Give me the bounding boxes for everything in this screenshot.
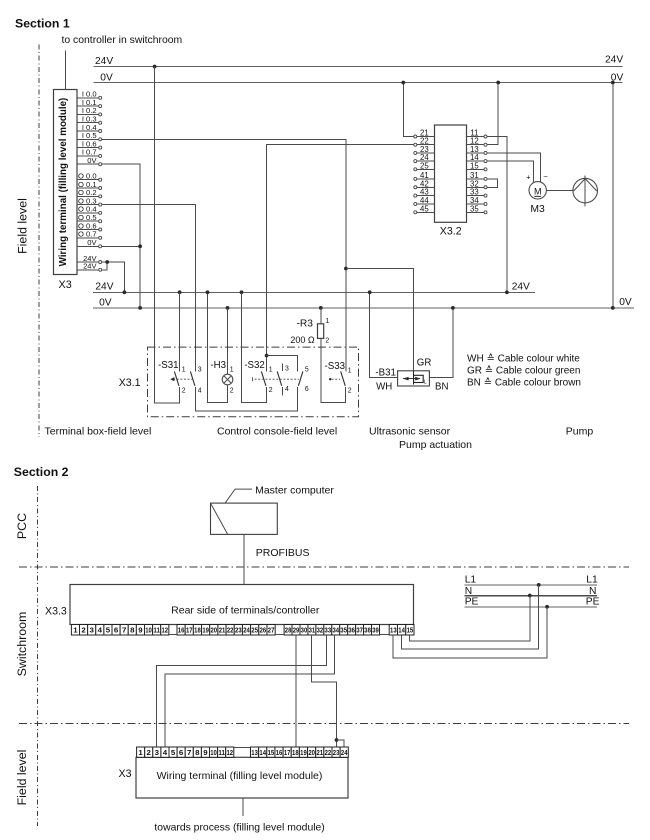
svg-text:20: 20 — [308, 748, 315, 757]
svg-text:22: 22 — [227, 626, 234, 635]
svg-text:15: 15 — [407, 626, 414, 635]
svg-text:1: 1 — [269, 366, 273, 373]
svg-text:16: 16 — [178, 626, 185, 635]
svg-text:25: 25 — [420, 161, 429, 170]
svg-text:0V: 0V — [99, 297, 112, 308]
svg-text:10: 10 — [145, 626, 152, 635]
svg-text:15: 15 — [268, 748, 275, 757]
svg-text:1: 1 — [348, 368, 352, 375]
svg-text:34: 34 — [332, 626, 339, 635]
svg-text:N: N — [465, 586, 472, 597]
svg-text:X3: X3 — [119, 768, 132, 780]
svg-text:200 Ω: 200 Ω — [290, 335, 315, 345]
svg-text:2: 2 — [325, 337, 329, 344]
svg-text:28: 28 — [285, 626, 292, 635]
svg-text:24V: 24V — [95, 282, 113, 293]
svg-text:+: + — [526, 173, 531, 182]
svg-text:Master computer: Master computer — [255, 485, 334, 497]
svg-text:3: 3 — [155, 748, 159, 757]
svg-text:10: 10 — [210, 748, 217, 757]
svg-text:14: 14 — [259, 748, 266, 757]
svg-text:M: M — [534, 186, 542, 196]
svg-text:36: 36 — [348, 626, 355, 635]
svg-text:29: 29 — [293, 626, 300, 635]
svg-text:-S33: -S33 — [325, 361, 345, 372]
svg-text:12: 12 — [161, 626, 168, 635]
svg-text:PE: PE — [465, 597, 479, 608]
svg-text:3: 3 — [285, 366, 289, 373]
svg-text:13: 13 — [390, 626, 397, 635]
svg-text:21: 21 — [316, 748, 323, 757]
svg-text:45: 45 — [420, 204, 429, 213]
svg-text:8: 8 — [195, 748, 199, 757]
svg-text:2: 2 — [147, 748, 151, 757]
svg-text:Section 1: Section 1 — [15, 17, 70, 31]
svg-text:11: 11 — [218, 748, 225, 757]
svg-text:31: 31 — [309, 626, 316, 635]
svg-text:0V: 0V — [100, 72, 113, 83]
svg-text:24V: 24V — [83, 262, 97, 271]
svg-text:0V: 0V — [87, 156, 97, 165]
svg-text:15: 15 — [470, 161, 479, 170]
svg-text:30: 30 — [301, 626, 308, 635]
svg-text:X3.1: X3.1 — [119, 377, 141, 389]
svg-text:27: 27 — [268, 626, 275, 635]
svg-text:6: 6 — [305, 386, 309, 393]
svg-text:38: 38 — [364, 626, 371, 635]
svg-text:21: 21 — [219, 626, 226, 635]
svg-text:14: 14 — [398, 626, 405, 635]
svg-text:26: 26 — [260, 626, 267, 635]
svg-text:towards process (filling level: towards process (filling level module) — [154, 822, 324, 833]
svg-text:24: 24 — [341, 748, 348, 757]
svg-text:0V: 0V — [619, 297, 632, 308]
svg-text:GR ≙ Cable colour green: GR ≙ Cable colour green — [467, 365, 580, 377]
svg-text:19: 19 — [202, 626, 209, 635]
svg-text:Field level: Field level — [16, 198, 30, 254]
svg-text:33: 33 — [325, 626, 332, 635]
svg-text:25: 25 — [251, 626, 258, 635]
svg-text:18: 18 — [194, 626, 201, 635]
svg-text:PE: PE — [586, 597, 600, 608]
svg-text:4: 4 — [285, 386, 289, 393]
svg-text:5: 5 — [305, 366, 309, 373]
svg-text:GR: GR — [417, 358, 432, 369]
svg-text:1: 1 — [325, 318, 329, 325]
svg-text:BN ≙ Cable colour brown: BN ≙ Cable colour brown — [467, 377, 581, 389]
svg-text:WH ≙ Cable colour white: WH ≙ Cable colour white — [467, 353, 580, 365]
svg-text:-B31: -B31 — [375, 368, 395, 379]
svg-text:−: − — [543, 172, 548, 181]
svg-text:X3.3: X3.3 — [45, 605, 67, 617]
svg-text:23: 23 — [235, 626, 242, 635]
svg-text:3: 3 — [90, 626, 94, 635]
svg-text:Wiring terminal (filling level: Wiring terminal (filling level module) — [157, 770, 323, 782]
svg-text:Section 2: Section 2 — [14, 465, 69, 479]
svg-text:PROFIBUS: PROFIBUS — [256, 547, 310, 559]
svg-text:N: N — [589, 586, 596, 597]
svg-text:20: 20 — [211, 626, 218, 635]
svg-text:Rear side of terminals/control: Rear side of terminals/controller — [171, 604, 320, 616]
svg-text:7: 7 — [122, 626, 126, 635]
svg-text:2: 2 — [269, 387, 273, 394]
svg-text:X3: X3 — [59, 279, 72, 291]
svg-text:39: 39 — [372, 626, 379, 635]
svg-text:37: 37 — [356, 626, 363, 635]
svg-text:L: L — [424, 379, 427, 385]
svg-text:PCC: PCC — [15, 513, 29, 539]
svg-text:Wiring terminal (filling level: Wiring terminal (filling level module) — [58, 98, 69, 267]
svg-text:Switchroom: Switchroom — [15, 612, 29, 677]
svg-text:0V: 0V — [87, 238, 97, 247]
svg-text:Terminal box-field level: Terminal box-field level — [45, 426, 152, 438]
svg-text:12: 12 — [226, 748, 233, 757]
svg-text:24: 24 — [243, 626, 250, 635]
svg-text:23: 23 — [333, 748, 340, 757]
svg-text:24V: 24V — [95, 56, 113, 67]
svg-text:L1: L1 — [465, 575, 477, 586]
svg-text:17: 17 — [186, 626, 193, 635]
svg-text:1: 1 — [182, 366, 186, 373]
svg-text:8: 8 — [130, 626, 134, 635]
svg-text:6: 6 — [114, 626, 118, 635]
svg-text:24V: 24V — [605, 55, 623, 66]
svg-text:16: 16 — [276, 748, 283, 757]
svg-text:X3.2: X3.2 — [440, 226, 462, 238]
svg-text:Pump actuation: Pump actuation — [399, 439, 472, 451]
svg-text:35: 35 — [470, 204, 479, 213]
svg-text:13: 13 — [251, 748, 258, 757]
svg-text:35: 35 — [340, 626, 347, 635]
svg-text:6: 6 — [179, 748, 183, 757]
svg-text:M3: M3 — [530, 204, 545, 215]
svg-text:1: 1 — [230, 366, 234, 373]
svg-text:2: 2 — [182, 388, 186, 395]
svg-text:Ultrasonic sensor: Ultrasonic sensor — [369, 426, 451, 438]
svg-text:BN: BN — [435, 382, 448, 393]
svg-text:9: 9 — [203, 748, 207, 757]
svg-text:17: 17 — [284, 748, 291, 757]
svg-text:7: 7 — [187, 748, 191, 757]
svg-text:32: 32 — [317, 626, 324, 635]
svg-text:3: 3 — [198, 366, 202, 373]
svg-text:-R3: -R3 — [296, 318, 313, 329]
svg-text:9: 9 — [138, 626, 142, 635]
svg-text:18: 18 — [292, 748, 299, 757]
svg-text:-S31: -S31 — [158, 360, 178, 371]
svg-text:11: 11 — [153, 626, 160, 635]
svg-text:Field level: Field level — [15, 750, 29, 806]
svg-text:24V: 24V — [512, 282, 530, 293]
svg-text:Pump: Pump — [566, 426, 594, 438]
svg-text:22: 22 — [325, 748, 332, 757]
svg-text:-S32: -S32 — [244, 360, 264, 371]
svg-text:Control console-field level: Control console-field level — [217, 426, 337, 438]
svg-text:4: 4 — [198, 388, 202, 395]
svg-text:19: 19 — [300, 748, 307, 757]
svg-text:2: 2 — [230, 388, 234, 395]
svg-text:2: 2 — [348, 388, 352, 395]
svg-text:to controller in switchroom: to controller in switchroom — [62, 35, 183, 46]
svg-text:L1: L1 — [586, 575, 598, 586]
svg-text:-H3: -H3 — [210, 360, 226, 371]
svg-text:2: 2 — [81, 626, 85, 635]
svg-text:WH: WH — [376, 381, 392, 392]
